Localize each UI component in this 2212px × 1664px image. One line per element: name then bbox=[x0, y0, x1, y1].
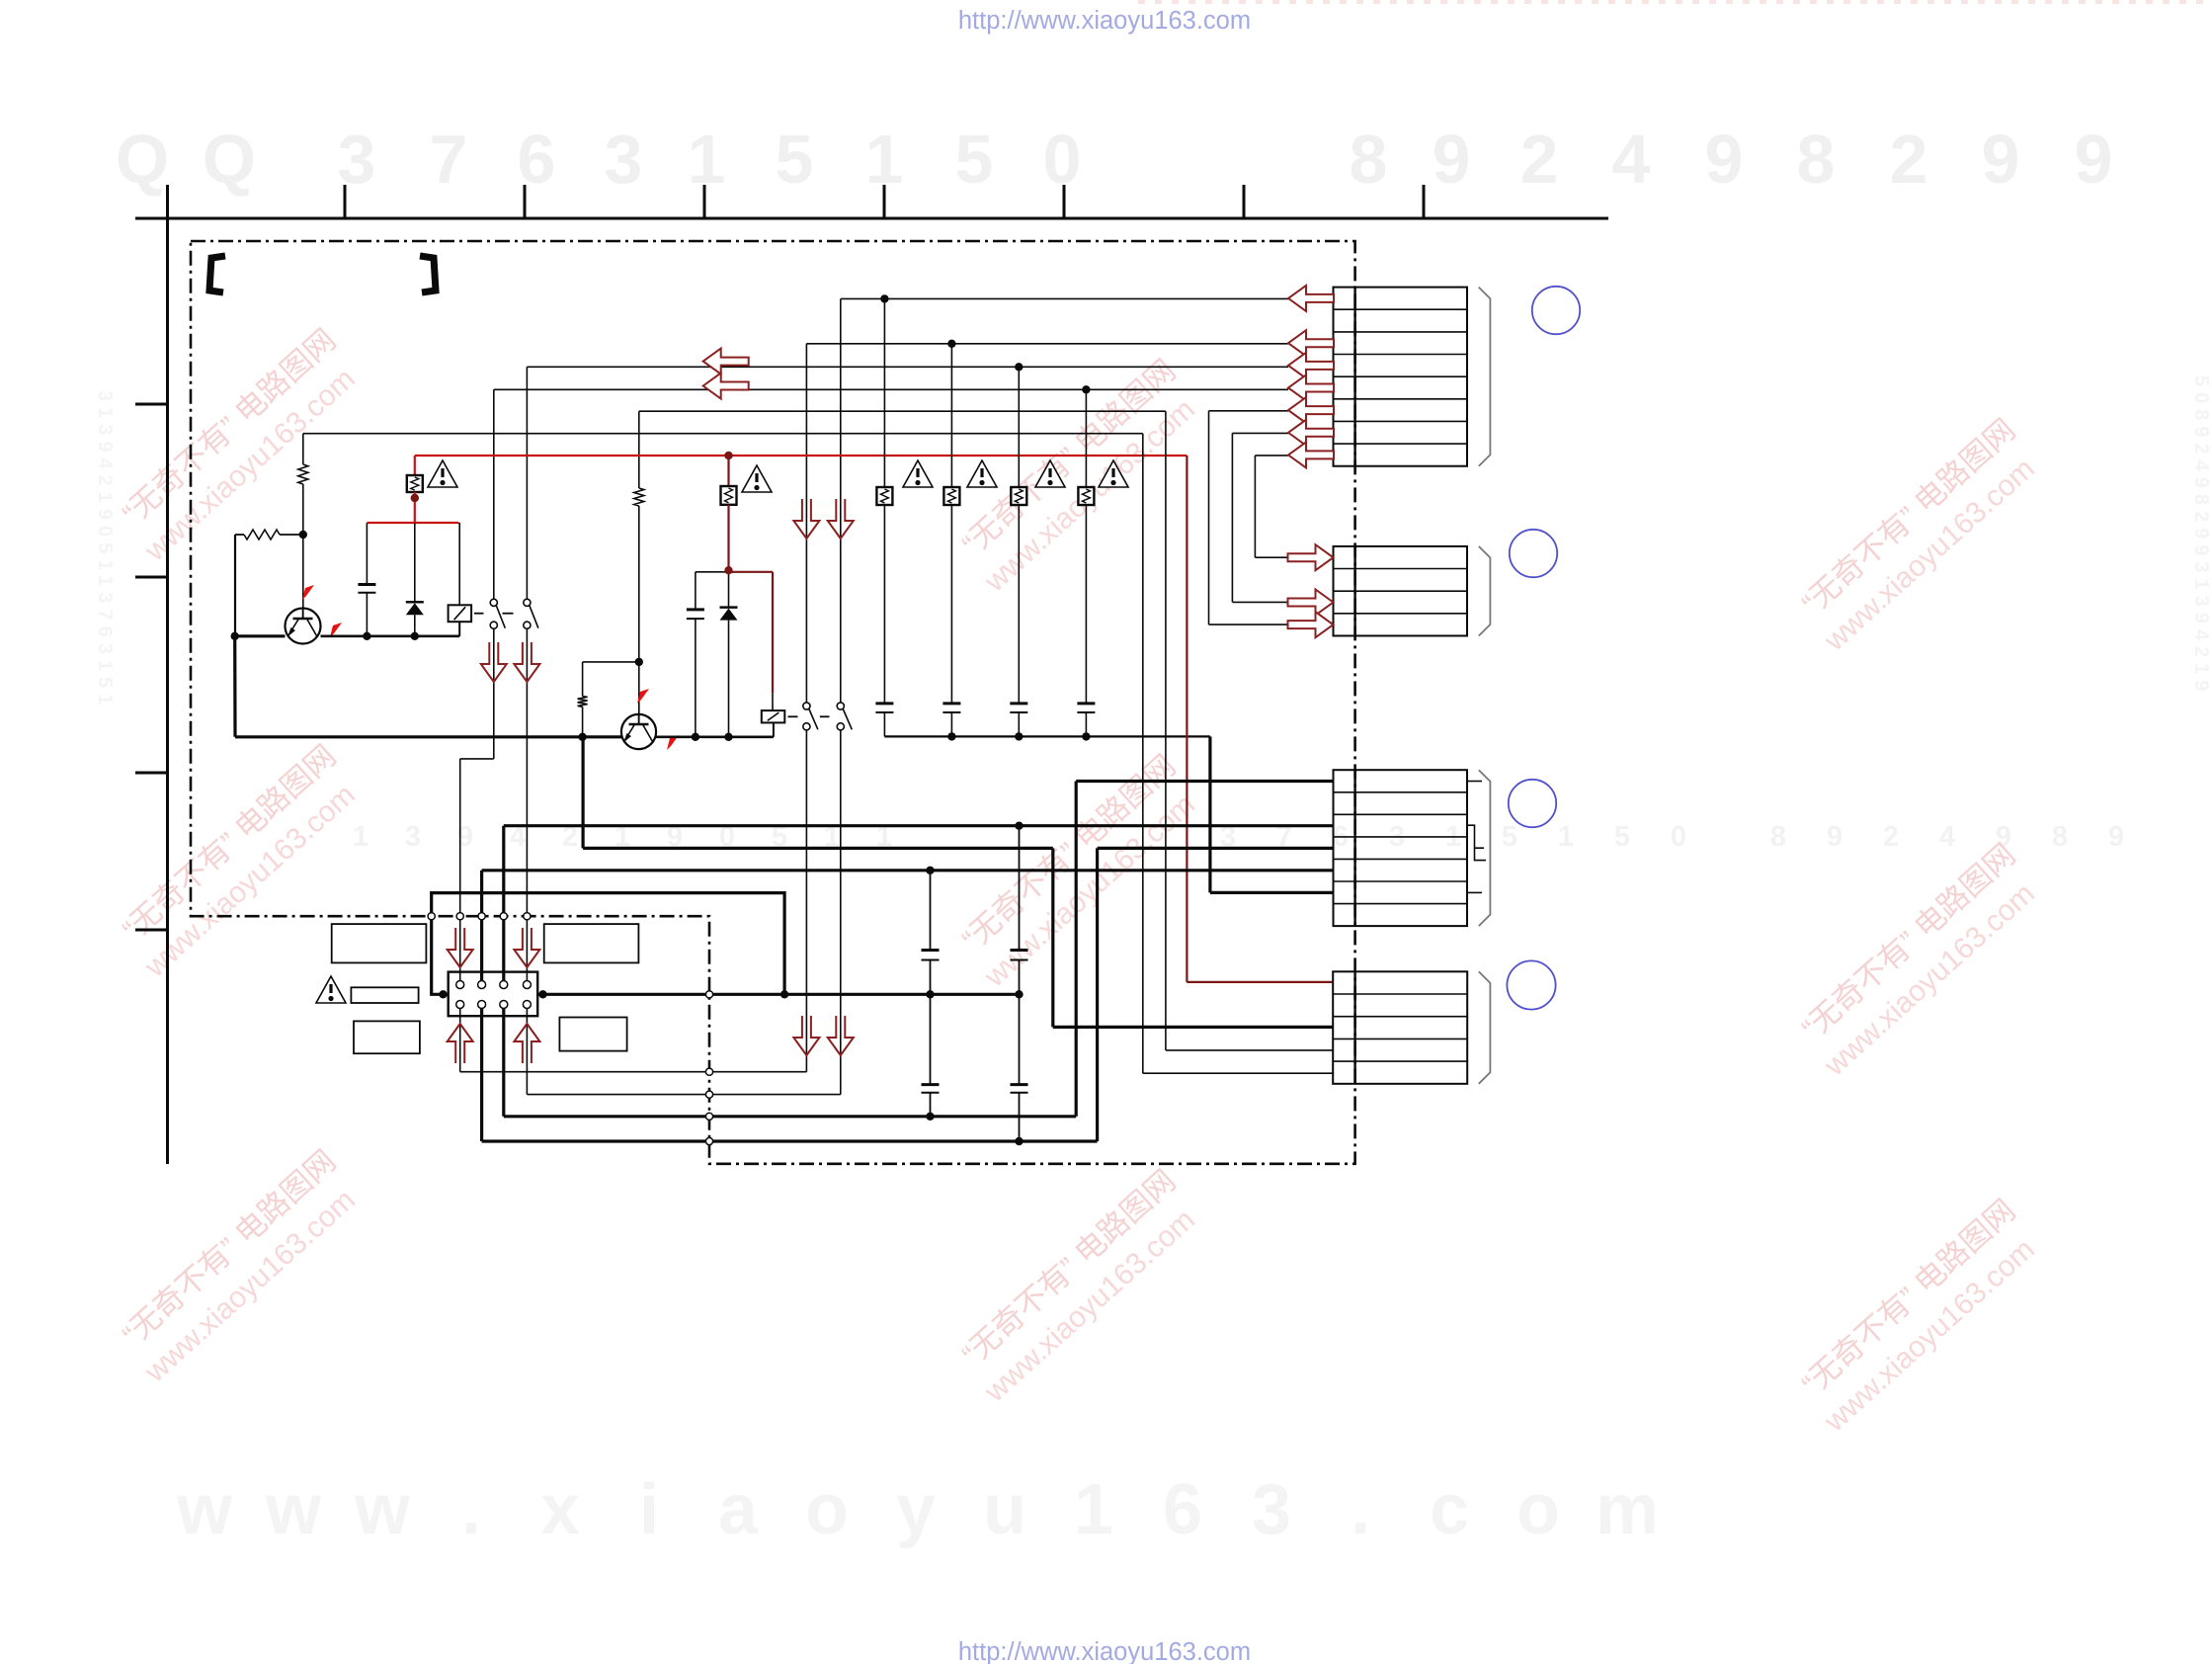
label box B3 bbox=[351, 987, 418, 1003]
signal arrow down on S2 line bbox=[514, 642, 539, 682]
watermark middle gray digits row bbox=[353, 821, 2124, 853]
wire S3 bottom vertical bbox=[805, 730, 807, 1072]
red mark Q2 base bbox=[637, 689, 649, 704]
svg-text:9: 9 bbox=[1705, 121, 1744, 198]
ruler left vertical line bbox=[166, 185, 169, 1164]
node CN5 right edge junction bbox=[538, 990, 546, 998]
wire into CN2 row3 bbox=[1232, 601, 1288, 603]
boundary crossing node y1129 bbox=[705, 1113, 712, 1120]
wire red R4 bottom lead bbox=[414, 492, 416, 523]
wire rail2 left segment bbox=[235, 735, 621, 738]
wire CN1 row7 stub bbox=[1232, 432, 1288, 434]
warning triangle near RB1 bbox=[903, 460, 933, 487]
svg-text:3: 3 bbox=[1252, 1470, 1291, 1549]
CN5 pin 7 bbox=[500, 1001, 508, 1009]
wire C2 bottom lead bbox=[695, 619, 696, 737]
wire H1 into CN3 row3 bbox=[504, 824, 1334, 827]
wire CN5 pin8 bottom vertical bbox=[526, 1008, 528, 1094]
svg-text:8: 8 bbox=[1770, 821, 1786, 853]
capacitor CB1 bbox=[875, 704, 893, 712]
wire H4 block bypass loop bbox=[432, 893, 784, 995]
capacitor CB4 bbox=[1077, 704, 1095, 712]
svg-text:8: 8 bbox=[2052, 821, 2068, 853]
signal arrow down to CN5 pin4 bbox=[514, 928, 539, 967]
connector CN3 bracket bbox=[1479, 770, 1491, 926]
node R0/R1 junction bbox=[299, 531, 307, 539]
wire S1 top vertical bbox=[493, 389, 495, 599]
capacitor C1 bbox=[358, 585, 375, 593]
diode D1 bbox=[406, 602, 424, 615]
connector CN2 bracket bbox=[1479, 546, 1491, 636]
node H4/CE junction bbox=[926, 990, 934, 998]
wire D1 top lead bbox=[414, 523, 416, 602]
wire H3 into CN3 row5 bbox=[482, 869, 1334, 872]
svg-text:o: o bbox=[805, 1470, 849, 1549]
CN5 pin 8 bbox=[523, 1001, 531, 1009]
node D1 bottom junction bbox=[411, 632, 419, 640]
svg-text:.: . bbox=[461, 1470, 481, 1549]
wire S4 top vertical bbox=[840, 298, 842, 703]
node row1/RB1 junction bbox=[880, 294, 888, 302]
svg-text:o: o bbox=[1516, 1470, 1560, 1549]
connector CN4 circle label bbox=[1507, 960, 1555, 1009]
boundary crossing node y1084 bbox=[705, 1068, 712, 1075]
svg-text:w: w bbox=[265, 1470, 322, 1549]
svg-text:2: 2 bbox=[1883, 821, 1899, 853]
node H1/CF junction bbox=[1015, 822, 1023, 830]
CN5 pin 4 bbox=[523, 981, 531, 989]
wire Q2 base lower lead bbox=[638, 506, 640, 724]
wire Q2 base upper lead bbox=[638, 411, 640, 488]
wire RB4 to cap lead bbox=[1085, 505, 1087, 704]
wire CN5 pin3 top vertical bbox=[502, 826, 505, 981]
label box B2 bbox=[544, 924, 639, 962]
svg-text:Q: Q bbox=[203, 121, 256, 198]
svg-text:3: 3 bbox=[405, 821, 421, 853]
wire rail2 right segment bbox=[656, 735, 774, 738]
node B/RB4 junction bbox=[1082, 385, 1090, 393]
node H3/CE junction bbox=[926, 867, 934, 874]
signal arrow down on S1 line bbox=[481, 642, 507, 682]
wire CN5 pin7 bottom vertical bbox=[502, 1008, 505, 1117]
CN3 row1 stub pin bbox=[1468, 781, 1483, 783]
svg-text:2: 2 bbox=[1890, 121, 1928, 198]
wire C2 top lead bbox=[695, 572, 696, 610]
relay coil RY1 bbox=[449, 605, 472, 622]
wire D1 bottom lead bbox=[414, 615, 416, 636]
wire RB4 top lead bbox=[1085, 389, 1087, 487]
connector CN1 body bbox=[1334, 288, 1468, 466]
wire CG bottom lead bbox=[930, 1093, 932, 1117]
resistor R3 bbox=[578, 697, 588, 707]
wire red RY2 feed vertical bbox=[772, 572, 774, 694]
red mark Q1 collector bbox=[330, 623, 342, 637]
ruler left tick 3 bbox=[135, 772, 168, 775]
connector CN4 bracket bbox=[1479, 971, 1491, 1084]
ruler top tick 3 bbox=[703, 185, 706, 218]
capacitor CH bbox=[1011, 1085, 1028, 1093]
CN3 row6 stub pin bbox=[1468, 891, 1483, 893]
wire CB4 bottom lead bbox=[1085, 712, 1087, 736]
capacitor CB3 bbox=[1010, 704, 1027, 712]
label box B1 bbox=[332, 924, 427, 962]
signal arrow down on S4 top line bbox=[828, 499, 854, 539]
wire cluster left branch bbox=[696, 571, 729, 573]
svg-text:1: 1 bbox=[688, 121, 726, 198]
fusible resistor R5 bbox=[721, 486, 737, 505]
boundary crossing node x509 bbox=[500, 913, 507, 920]
wire red main y461 bbox=[415, 455, 1188, 457]
node C1 bottom junction bbox=[363, 632, 370, 640]
svg-text:0: 0 bbox=[1043, 121, 1082, 198]
ruler top tick 5 bbox=[1063, 185, 1066, 218]
signal arrow into CN2 row3 bbox=[1288, 590, 1334, 616]
svg-text:http://www.xiaoyu163.com: http://www.xiaoyu163.com bbox=[958, 1638, 1251, 1664]
wire pin8 to S4 line horizontal bbox=[527, 1094, 840, 1096]
svg-text:a: a bbox=[718, 1470, 759, 1549]
node H5/CG junction bbox=[926, 1113, 934, 1121]
capacitor C2 bbox=[687, 610, 704, 619]
wire R3 link horizontal bbox=[583, 661, 639, 663]
resistor R2 bbox=[634, 488, 644, 506]
wire R1 to Q1 base bbox=[302, 484, 304, 619]
svg-text:9: 9 bbox=[1827, 821, 1843, 853]
wire D2 bottom lead bbox=[728, 621, 730, 737]
transistor Q2 bbox=[621, 714, 656, 749]
capacitor CB2 bbox=[942, 704, 960, 712]
wire H2 horizontal bbox=[583, 847, 1053, 850]
connector CN2 body bbox=[1334, 546, 1468, 636]
fusible resistor R4 bbox=[407, 475, 423, 492]
node H4/CF junction bbox=[1015, 990, 1023, 998]
node Q2 base/R3 junction bbox=[635, 658, 643, 666]
svg-text:9: 9 bbox=[2108, 821, 2124, 853]
CN5 pin 2 bbox=[478, 981, 486, 989]
watermark pink diagonal tiles bbox=[109, 322, 2049, 1439]
ruler top tick 2 bbox=[524, 185, 527, 218]
ruler top tick 6 bbox=[1243, 185, 1246, 218]
signal arrow left on net A bbox=[703, 349, 749, 374]
warning triangle near R5 bbox=[742, 465, 772, 492]
svg-text:8: 8 bbox=[1350, 121, 1388, 198]
signal arrow out of CN1 row4 bbox=[1288, 353, 1334, 378]
warning triangle near RB4 bbox=[1099, 460, 1128, 487]
wire into CN3 row6 bbox=[1210, 891, 1334, 894]
watermark left vertical tiny gray digits bbox=[94, 375, 2212, 710]
svg-text:9: 9 bbox=[1433, 121, 1471, 198]
switch S4 bbox=[837, 703, 852, 730]
connector CN5 block body bbox=[449, 972, 538, 1017]
node red junction below R4 bbox=[411, 494, 419, 502]
warning triangle near RB3 bbox=[1035, 460, 1065, 487]
wire CN1 row8 to CN2 row1 vertical bbox=[1254, 456, 1256, 557]
board name bracket right bbox=[420, 256, 436, 292]
signal arrow up into CN5 pin8 bbox=[514, 1024, 539, 1063]
svg-text:5: 5 bbox=[1614, 821, 1630, 853]
node CN5 left edge junction bbox=[439, 990, 447, 998]
wire RB2 to cap lead bbox=[950, 505, 952, 704]
svg-text:9: 9 bbox=[2075, 121, 2113, 198]
board outline dash-dot boundary bbox=[191, 241, 1355, 1164]
wire CE top lead bbox=[930, 871, 932, 951]
wire net B y394 bbox=[494, 388, 1288, 390]
wire RB1 top lead bbox=[883, 298, 885, 487]
wire rail1 left segment bbox=[235, 634, 286, 637]
svg-text:9: 9 bbox=[1982, 121, 2020, 198]
ruler top horizontal line bbox=[135, 217, 1608, 220]
wire CE bottom lead bbox=[930, 960, 932, 995]
wire S3-S4 linkage dash bbox=[820, 715, 830, 717]
wire CN1 row8 stub bbox=[1255, 455, 1288, 457]
svg-text:i: i bbox=[639, 1470, 659, 1549]
ruler top tick 1 bbox=[344, 185, 347, 218]
wire D horizontal y439 bbox=[303, 433, 1143, 435]
wire cap bank bus y745 bbox=[884, 735, 1210, 737]
svg-text:7: 7 bbox=[430, 121, 468, 198]
signal arrow left on net B bbox=[703, 374, 749, 399]
wire CG top lead bbox=[930, 994, 932, 1084]
wire into CN3 row1 bbox=[1076, 780, 1333, 783]
wire CB2 bottom lead bbox=[950, 712, 952, 736]
node red main/R5 junction bbox=[724, 452, 732, 459]
signal arrow down on S3 bottom line bbox=[793, 1016, 819, 1055]
svg-text:1: 1 bbox=[1558, 821, 1574, 853]
wire RB1 to cap lead bbox=[883, 505, 885, 704]
node A/RB3 junction bbox=[1015, 363, 1023, 371]
wire C1 bottom lead bbox=[366, 593, 368, 636]
node red cluster junction bbox=[724, 566, 732, 574]
wire red top edge of Q1 cell bbox=[367, 522, 458, 524]
wire C horizontal y416 bbox=[639, 410, 1166, 412]
resistor R1 bbox=[298, 464, 308, 484]
CN5 pin 5 bbox=[456, 1001, 464, 1009]
signal arrow into CN2 row4 bbox=[1288, 612, 1334, 637]
ruler top tick 4 bbox=[883, 185, 886, 218]
svg-text:0: 0 bbox=[1671, 821, 1686, 853]
wire pin5 to S3 line horizontal bbox=[460, 1071, 807, 1073]
svg-text:Q: Q bbox=[116, 121, 169, 198]
label box B4 bbox=[354, 1021, 420, 1053]
signal arrow down to CN5 pin1 bbox=[448, 928, 473, 967]
boundary crossing node x436 bbox=[428, 913, 435, 920]
diode D2 bbox=[720, 608, 738, 621]
board name bracket left bbox=[209, 256, 225, 292]
wire S1-S2 linkage dash bbox=[503, 613, 514, 615]
capacitor CF bbox=[1011, 951, 1028, 960]
wire into CN4 row5 bbox=[1143, 1072, 1334, 1074]
fusible resistor RB2 bbox=[943, 487, 959, 505]
switch S1 bbox=[490, 599, 505, 628]
wire H5 up vertical to CN3 row1 bbox=[1075, 782, 1078, 1117]
svg-text:x: x bbox=[540, 1470, 580, 1549]
wire into CN2 row4 bbox=[1209, 624, 1289, 625]
wire CH bottom lead bbox=[1019, 1093, 1021, 1141]
svg-text:6: 6 bbox=[1163, 1470, 1202, 1549]
wire CH top lead bbox=[1019, 994, 1021, 1084]
wire S2 top vertical bbox=[526, 367, 528, 599]
node bus CB3 bbox=[1015, 732, 1023, 740]
svg-text:http://www.xiaoyu163.com: http://www.xiaoyu163.com bbox=[958, 7, 1251, 35]
wire S1 bottom vertical bbox=[493, 628, 495, 759]
wire D2 top lead bbox=[728, 572, 730, 608]
wire RY1 top lead bbox=[458, 523, 460, 605]
capacitor CE bbox=[922, 951, 940, 960]
wire CN5 pin5 bottom vertical bbox=[459, 1008, 461, 1071]
signal arrow into CN2 row1 bbox=[1288, 544, 1334, 570]
CN5 pin 6 bbox=[478, 1001, 486, 1009]
wire H2 down vertical bbox=[1051, 848, 1054, 1027]
switch S3 bbox=[803, 703, 818, 730]
signal arrow out of CN1 row7 bbox=[1288, 420, 1334, 446]
wire H4 horizontal bbox=[537, 993, 1019, 996]
wire red R4 top lead bbox=[414, 456, 416, 475]
wire CF bottom lead bbox=[1019, 960, 1021, 995]
signal arrow out of CN1 row1 bbox=[1288, 286, 1334, 311]
ruler top tick 7 bbox=[1423, 185, 1426, 218]
svg-text:5: 5 bbox=[776, 121, 814, 198]
svg-text:5: 5 bbox=[955, 121, 994, 198]
svg-text:8: 8 bbox=[1797, 121, 1836, 198]
wire relay RY1 bottom lead bbox=[458, 622, 460, 636]
wire CN1 row7 to CN2 row3 vertical bbox=[1231, 433, 1233, 602]
signal arrow down on S4 bottom line bbox=[828, 1016, 854, 1055]
boundary crossing node x487 bbox=[478, 913, 485, 920]
svg-text:y: y bbox=[896, 1470, 936, 1549]
connector CN2 circle label bbox=[1510, 530, 1557, 577]
svg-text:6: 6 bbox=[518, 121, 556, 198]
wire R3 bottom lead bbox=[582, 707, 584, 737]
wire H5 horizontal bbox=[504, 1115, 1076, 1118]
node bus CB2 bbox=[947, 732, 955, 740]
node bus CB4 bbox=[1082, 732, 1090, 740]
wire D vertical to CN4 row5 bbox=[1142, 434, 1144, 1073]
svg-text:1: 1 bbox=[353, 821, 369, 853]
CN5 pin 3 bbox=[500, 981, 508, 989]
wire red cluster right branch bbox=[729, 571, 774, 573]
wire red into CN4 row1 bbox=[1187, 981, 1333, 983]
svg-text:5: 5 bbox=[1502, 821, 1517, 853]
ruler left tick 4 bbox=[135, 929, 168, 932]
node H4/bypass junction bbox=[780, 990, 788, 998]
wire red R5 top lead bbox=[727, 456, 729, 486]
boundary crossing node y1006 bbox=[705, 991, 712, 998]
wire rail1 right segment bbox=[321, 634, 460, 637]
wire red vertical to CN4 row1 bbox=[1186, 456, 1188, 982]
wire Q2 node down vertical bbox=[581, 737, 584, 849]
signal arrow out of CN1 row8 bbox=[1288, 442, 1334, 467]
node rail1 left junction bbox=[231, 632, 239, 640]
connector CN4 body bbox=[1333, 971, 1467, 1084]
svg-text:3: 3 bbox=[338, 121, 376, 198]
wire CB1 bottom lead bbox=[883, 712, 885, 736]
label box B5 bbox=[559, 1018, 626, 1051]
wire S1 jog horizontal bbox=[460, 758, 494, 760]
svg-text:5089249829931394219: 5089249829931394219 bbox=[2190, 375, 2212, 697]
node C2 bottom junction bbox=[692, 733, 699, 741]
svg-text:.: . bbox=[1351, 1470, 1370, 1549]
node H6/CH junction bbox=[1015, 1137, 1023, 1145]
svg-text:2: 2 bbox=[1520, 121, 1559, 198]
wire into CN2 row1 bbox=[1255, 556, 1288, 558]
ruler left tick 1 bbox=[135, 403, 168, 406]
fusible resistor RB1 bbox=[876, 487, 892, 505]
wire net A y371 bbox=[527, 366, 1288, 368]
wire CN5 pin2 top vertical bbox=[480, 871, 483, 981]
wire C vertical to CN4 row4 bbox=[1165, 411, 1167, 1050]
fusible resistor RB3 bbox=[1011, 487, 1026, 505]
wire R1 top lead bbox=[302, 434, 304, 464]
svg-text:4: 4 bbox=[1939, 821, 1955, 853]
svg-text:4: 4 bbox=[1612, 121, 1651, 198]
boundary crossing node y1155 bbox=[705, 1137, 712, 1144]
wire RB2 top lead bbox=[950, 344, 952, 487]
node D2 bottom junction bbox=[724, 733, 732, 741]
wire into CN3 row4 bbox=[1098, 847, 1334, 850]
signal arrow down on S3 top line bbox=[793, 499, 819, 539]
CN5 pin 1 bbox=[456, 981, 464, 989]
wire C1 top lead bbox=[366, 523, 368, 585]
wire RB3 top lead bbox=[1018, 367, 1020, 487]
boundary crossing node y1107 bbox=[705, 1091, 712, 1098]
wire CN3 row4 down vertical to H6 bbox=[1096, 848, 1099, 1141]
red mark Q2 collector bbox=[667, 735, 679, 750]
transistor Q1 bbox=[286, 609, 321, 644]
wire RY2 linkage dash bbox=[788, 715, 798, 717]
wire left vertical x238 lower bbox=[233, 636, 237, 737]
signal arrow up into CN5 pin5 bbox=[448, 1024, 473, 1063]
wire to CN5 pin1 vertical bbox=[459, 759, 461, 981]
wire RY1 linkage dash bbox=[474, 613, 484, 615]
fusible resistor RB4 bbox=[1078, 487, 1094, 505]
connector CN1 bracket bbox=[1479, 288, 1491, 466]
wire CF top lead bbox=[1019, 826, 1021, 951]
wire CN1 row6 stub bbox=[1209, 410, 1289, 412]
wire bus vertical to CN3 row6 bbox=[1208, 736, 1211, 892]
wire S4 bottom vertical bbox=[840, 730, 842, 1095]
wire R3 top lead bbox=[582, 662, 584, 697]
boundary crossing node x533 bbox=[524, 913, 531, 920]
wire CN5 pin6 bottom vertical bbox=[480, 1008, 483, 1141]
warning triangle near RB2 bbox=[967, 460, 997, 487]
wire H2 into CN4 row3 bbox=[1053, 1026, 1334, 1029]
wire RB3 to cap lead bbox=[1018, 505, 1020, 704]
signal arrow out of CN1 row3 bbox=[1288, 330, 1334, 356]
warning triangle near R4 bbox=[428, 460, 457, 487]
wire S3 top vertical bbox=[805, 344, 807, 703]
node rail2/R3 junction bbox=[578, 733, 586, 741]
warning triangle near CN5 bbox=[316, 976, 346, 1003]
wire left vertical x238 upper bbox=[234, 535, 236, 636]
signal arrow out of CN1 row6 bbox=[1288, 397, 1334, 423]
connector CN3 body bbox=[1334, 770, 1468, 926]
ruler left tick 2 bbox=[135, 576, 168, 579]
boundary crossing node x465 bbox=[456, 913, 463, 920]
svg-text:c: c bbox=[1430, 1470, 1469, 1549]
wire net row3 y348 bbox=[806, 343, 1288, 345]
svg-text:3139421905113763151: 3139421905113763151 bbox=[94, 390, 116, 710]
wire S2 to CN5 pin4 vertical bbox=[526, 628, 528, 980]
wire R0 right lead bbox=[280, 534, 303, 536]
capacitor CG bbox=[922, 1085, 940, 1093]
wire red R5 bottom lead bbox=[727, 505, 729, 570]
node row3/RB2 junction bbox=[947, 340, 955, 348]
svg-text:u: u bbox=[983, 1470, 1026, 1549]
relay coil RY2 bbox=[762, 710, 785, 722]
svg-text:w: w bbox=[176, 1470, 233, 1549]
connector CN1 circle label bbox=[1532, 287, 1580, 334]
resistor R0 bbox=[244, 530, 280, 540]
red mark Q1 base bbox=[302, 585, 314, 600]
